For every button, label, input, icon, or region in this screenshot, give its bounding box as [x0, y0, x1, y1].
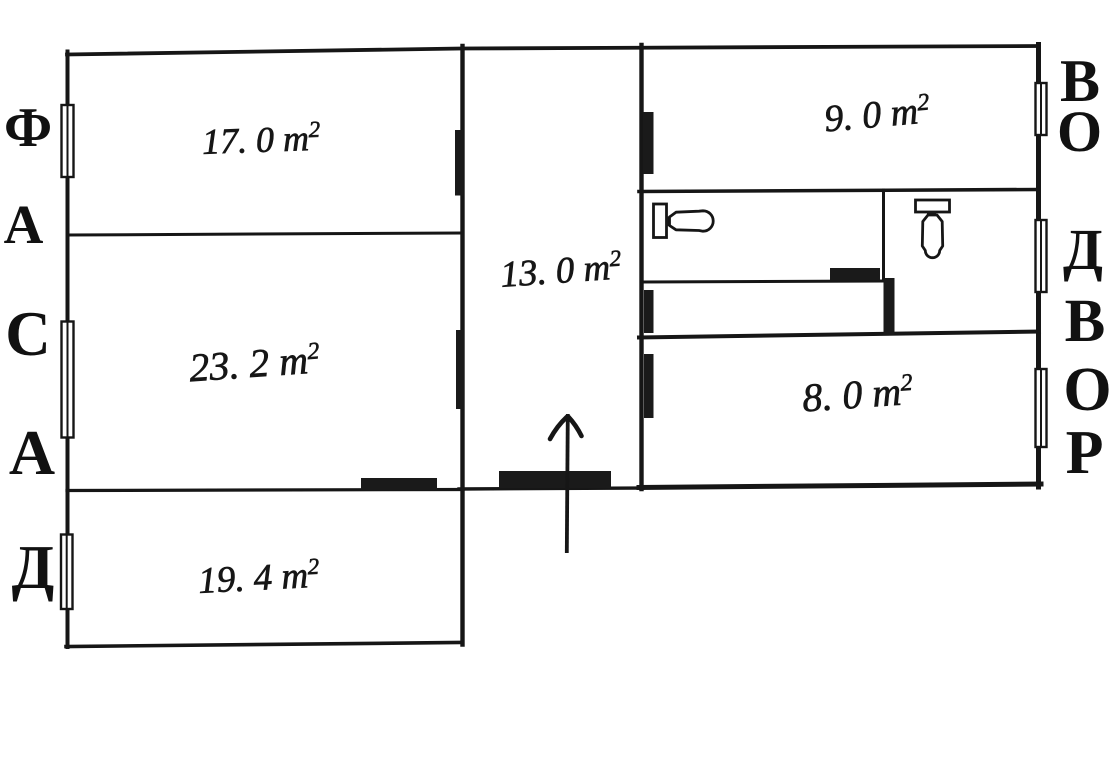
label area 19.4 m2	[197, 554, 321, 602]
bath L-wall horizontal black bar	[830, 268, 880, 281]
entrance arrow shaft	[567, 414, 568, 553]
door bath corridor (black bar on wall B middle)	[644, 290, 654, 333]
wall left bathroom bottom	[641, 281, 884, 282]
svg-text:А: А	[4, 194, 44, 255]
svg-text:23. 2 m2: 23. 2 m2	[188, 336, 322, 390]
window W2 left (S-A)	[62, 322, 74, 438]
label area 23.2 m2	[188, 336, 322, 390]
wall bottom of room 8.0	[639, 484, 1041, 488]
svg-text:В: В	[1065, 288, 1106, 355]
entrance threshold bar	[499, 471, 611, 488]
wall A: hallway left / right wall of left rooms	[460, 46, 464, 645]
wall top (outer, full width)	[67, 46, 1039, 55]
entrance arrow right wing	[569, 417, 582, 436]
window W5 right (D)	[1036, 220, 1047, 292]
toilet 2 neck	[927, 211, 936, 216]
wall top of room 8.0	[639, 332, 1039, 338]
toilet 2 bowl	[922, 215, 942, 258]
door room 23.2 (black bar on wall A lower)	[456, 330, 464, 409]
svg-text:17. 0 m2: 17. 0 m2	[201, 117, 321, 162]
label area 8.0 m2	[801, 368, 915, 421]
wall hallway bottom	[459, 488, 643, 489]
window W1 left (F)	[62, 105, 74, 177]
toilet 1 bowl	[670, 211, 714, 231]
window W3 left (D)	[61, 535, 73, 610]
svg-text:А: А	[9, 417, 55, 488]
label area 9.0 m2	[823, 89, 932, 140]
label area 13.0 m2	[499, 245, 623, 295]
wall bottom of room 19.4	[66, 643, 459, 647]
door room 9.0 (black bar on wall B top)	[643, 112, 654, 174]
toilet 2 tank (right bathroom)	[916, 200, 950, 212]
door room 8.0 (black bar on wall B lower)	[644, 354, 654, 418]
wall divider 17.0 / 23.2	[67, 233, 462, 235]
svg-text:Р: Р	[1066, 419, 1104, 487]
svg-text:Ф: Ф	[4, 97, 52, 159]
window W6 right (O-R)	[1036, 369, 1047, 447]
svg-text:С: С	[5, 299, 51, 369]
wall left outer	[66, 52, 70, 648]
label area 17.0 m2	[201, 117, 321, 162]
door threshold room 23.2 bottom	[361, 478, 437, 490]
bath L-wall vertical black bar	[884, 278, 895, 335]
entrance arrow left wing	[550, 417, 567, 439]
svg-text:19. 4 m2: 19. 4 m2	[197, 554, 321, 602]
wall long horizontal y=489 left part (19.4 top)	[67, 490, 463, 491]
window W4 right (V-O)	[1036, 83, 1047, 135]
svg-text:Д: Д	[12, 534, 55, 602]
wall bathroom top	[639, 190, 1039, 192]
svg-text:8. 0 m2: 8. 0 m2	[801, 368, 915, 421]
toilet 1 neck	[666, 217, 672, 227]
svg-text:Д: Д	[1063, 217, 1103, 282]
wall right outer	[1036, 45, 1041, 488]
toilet 1 cistern (left bathroom)	[654, 204, 667, 238]
svg-text:13. 0 m2: 13. 0 m2	[499, 245, 623, 295]
wall bathroom divider vertical	[882, 190, 885, 280]
door room 17.0 (black bar on wall A)	[455, 130, 464, 196]
svg-text:О: О	[1063, 356, 1111, 424]
wall B: hallway right	[639, 45, 643, 489]
svg-text:О: О	[1057, 99, 1102, 164]
